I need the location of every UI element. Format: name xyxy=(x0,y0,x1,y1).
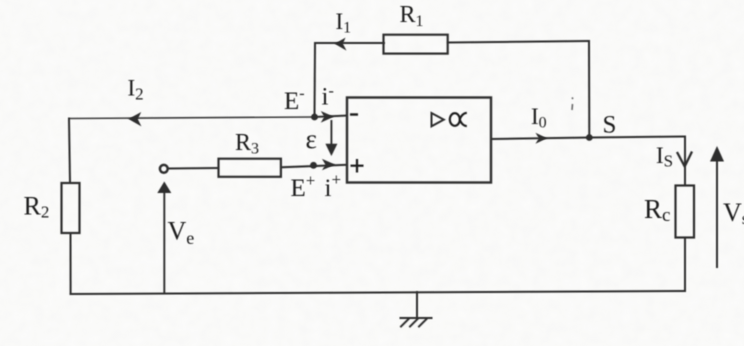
wire I2 horizontal xyxy=(69,117,315,119)
op-amp minus pin label xyxy=(350,113,358,115)
wire top horizontal right of R1 xyxy=(448,41,589,43)
svg-text:Vs: Vs xyxy=(723,198,744,228)
arrowhead Ve (up) xyxy=(157,182,171,194)
arrow Vs line xyxy=(716,160,718,267)
wire circle terminal to R3 xyxy=(169,167,219,170)
resistor R1 xyxy=(384,35,448,54)
arrowhead Vs (up) xyxy=(710,146,724,162)
source terminal circle xyxy=(160,165,168,173)
resistor R2 xyxy=(62,183,80,233)
arrowhead I2 (left) xyxy=(128,112,141,126)
arrowhead epsilon (down) xyxy=(325,144,337,156)
op-amp infinity (proportional) symbol xyxy=(450,113,467,126)
wire right vertical from top to node S xyxy=(588,41,590,138)
op-amp plus pin label xyxy=(351,159,364,173)
node S dot xyxy=(586,134,593,141)
node E+ dot xyxy=(310,162,317,169)
arrowhead Is (open chevron) xyxy=(678,153,692,167)
arrow Ve line xyxy=(163,192,165,293)
scan speck xyxy=(572,98,573,111)
wire top feedback loop left vertical xyxy=(314,43,317,117)
node E- dot xyxy=(311,114,318,121)
op-amp U1 box xyxy=(347,98,491,183)
wire ground stub xyxy=(416,292,418,318)
wire R3 to plus input xyxy=(281,165,347,168)
arrowhead I1 (left) xyxy=(335,38,347,51)
wire left rail lower xyxy=(70,233,72,294)
ground xyxy=(401,317,432,319)
wire left rail upper xyxy=(69,119,70,184)
wire op-amp output to S xyxy=(491,138,589,140)
wire S to right rail xyxy=(589,137,685,138)
resistor R3 xyxy=(219,159,281,177)
resistor Rc xyxy=(676,186,695,238)
svg-text:ε: ε xyxy=(306,124,317,154)
wire top horizontal left of R1 xyxy=(315,42,384,44)
op-amp gain symbol triangle xyxy=(432,113,444,126)
wire minus input node to op-amp xyxy=(315,116,348,117)
arrow epsilon line xyxy=(330,121,332,145)
arrowhead into minus input xyxy=(321,111,334,123)
svg-text:S: S xyxy=(603,112,617,139)
arrowhead into plus input xyxy=(322,159,335,170)
wire bottom horizontal xyxy=(71,291,685,294)
wire right rail lower xyxy=(684,238,686,292)
wire right rail upper xyxy=(684,137,686,186)
arrowhead I0 (right) xyxy=(536,133,548,144)
